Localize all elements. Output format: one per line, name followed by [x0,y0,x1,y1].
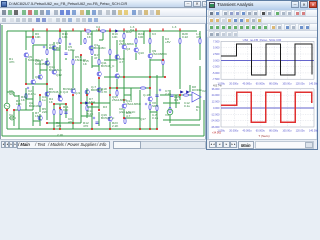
svg-text:-2.500: -2.500 [212,65,220,69]
svg-text:120.00u: 120.00u [296,130,306,133]
svg-text:20.000u: 20.000u [229,82,239,85]
svg-text:BDX53C: BDX53C [91,88,104,92]
svg-text:100.00u: 100.00u [282,82,292,85]
svg-text:2.500: 2.500 [213,52,220,56]
svg-text:12.000: 12.000 [212,100,220,104]
svg-text:140.00u: 140.00u [309,82,318,85]
svg-text:-24.000: -24.000 [211,119,220,123]
svg-text:0.1u: 0.1u [184,104,190,108]
svg-text:0.1: 0.1 [174,98,179,102]
svg-text:0.000: 0.000 [213,58,220,62]
svg-text:6: 6 [196,108,198,112]
svg-text:220: 220 [42,110,47,114]
svg-text:BCSMLC: BCSMLC [49,68,63,72]
svg-text:-5.000: -5.000 [212,71,220,75]
svg-text:10K: 10K [16,102,22,106]
svg-text:60.000u: 60.000u [256,82,266,85]
svg-text:2.2u: 2.2u [165,92,171,96]
svg-text:-36.000: -36.000 [211,125,220,129]
svg-text:-12.000: -12.000 [211,112,220,116]
svg-text:120.00u: 120.00u [296,82,306,85]
svg-text:+34.062: +34.062 [212,132,222,135]
svg-text:T (Secs): T (Secs) [258,134,269,138]
svg-text:1K: 1K [49,100,54,104]
svg-text:80.000u: 80.000u [269,82,279,85]
svg-text:+8V: +8V [165,40,172,44]
svg-text:20.000u: 20.000u [229,130,239,133]
svg-text:BC546_C: BC546_C [101,116,115,120]
svg-text:4.7: 4.7 [119,60,124,64]
svg-text:2.2K: 2.2K [57,133,64,137]
svg-text:100.00u: 100.00u [282,130,292,133]
svg-text:BC546C: BC546C [94,46,106,50]
svg-text:K3: K3 [152,32,156,36]
svg-text:Q10: Q10 [138,51,144,55]
svg-text:-7.500: -7.500 [212,77,220,81]
svg-text:0.000: 0.000 [213,106,220,110]
svg-text:24.000: 24.000 [212,93,220,97]
svg-text:BC546_C: BC546_C [49,90,63,94]
svg-text:47u: 47u [68,120,73,124]
svg-text:Q14: Q14 [35,75,41,79]
svg-text:V9: V9 [165,113,169,117]
svg-text:40.000u: 40.000u [243,82,253,85]
svg-text:Q3: Q3 [126,47,130,51]
svg-text:7.500: 7.500 [213,39,220,43]
svg-text:BD243C: BD243C [29,104,41,108]
svg-text:1N4: 1N4 [89,100,95,104]
svg-text:2SA1386C: 2SA1386C [126,102,142,106]
svg-text:80.000u: 80.000u [269,130,279,133]
svg-text:BC546_C: BC546_C [101,64,115,68]
svg-text:10K: 10K [112,35,118,39]
svg-text:100p: 100p [68,48,75,52]
svg-text:5.000: 5.000 [213,46,220,50]
svg-text:Q-9: Q-9 [75,91,80,95]
svg-text:Q12: Q12 [56,73,62,77]
svg-text:4.7: 4.7 [126,114,131,118]
svg-text:47u: 47u [196,35,201,39]
svg-text:60.000u: 60.000u [256,130,266,133]
svg-text:2SA1386C: 2SA1386C [119,42,135,46]
svg-text:1u: 1u [96,28,100,32]
svg-text:Q-6: Q-6 [63,90,68,94]
svg-text:1u: 1u [42,98,46,102]
svg-text:10K: 10K [62,35,68,39]
svg-text:D4: D4 [130,28,134,32]
svg-text:0.1u: 0.1u [152,116,158,120]
svg-text:Q-18: Q-18 [143,93,150,97]
svg-text:60Hz: 60Hz [9,116,17,120]
svg-text:47: 47 [94,56,98,60]
svg-text:D3: D3 [103,105,107,109]
svg-text:1.3: 1.3 [172,25,177,29]
svg-text:100: 100 [138,35,143,39]
svg-text:0.47u: 0.47u [28,92,36,96]
svg-text:140.00u: 140.00u [309,130,318,133]
svg-text:330: 330 [63,108,68,112]
svg-text:0.22: 0.22 [182,35,188,39]
svg-text:2.2K: 2.2K [112,124,119,128]
svg-text:10K: 10K [35,35,41,39]
svg-text:BC546C: BC546C [49,46,61,50]
svg-text:DIODE: DIODE [192,88,202,92]
svg-text:47K: 47K [9,60,15,64]
svg-text:2SC0883C: 2SC0883C [152,52,168,56]
svg-text:405.74n: 405.74n [213,85,223,88]
svg-text:Q4: Q4 [56,41,60,45]
svg-text:Q17: Q17 [140,117,146,121]
svg-text:40.000u: 40.000u [243,130,253,133]
svg-text:8.2K: 8.2K [87,112,94,116]
svg-text:1K: 1K [21,98,26,102]
svg-text:SRV: SRV [152,104,159,108]
svg-text:SIN: SIN [9,92,14,96]
svg-text:470: 470 [56,124,61,128]
svg-text:470: 470 [83,124,88,128]
